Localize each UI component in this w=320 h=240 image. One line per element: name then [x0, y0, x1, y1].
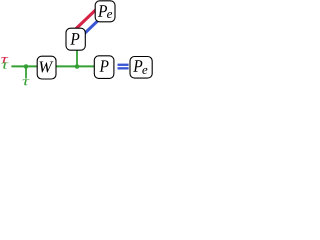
box W [37, 56, 56, 79]
wire: blue double line white core [117, 66, 130, 68]
wire: blue double line between bottom P and P_e [118, 64, 129, 70]
background [0, 0, 154, 105]
node: green junction dot right [75, 64, 80, 69]
label tau red (left, upper) [1, 57, 8, 63]
box P middle [66, 28, 85, 50]
wire: blue ribbon diagonal from P to top P_e [77, 13, 106, 41]
wire: green vertical riser to middle P box [76, 50, 78, 67]
box P bottom [94, 56, 114, 79]
wire: green horizontal main wire [11, 65, 95, 67]
node: green junction dot left [24, 64, 29, 69]
box P_e bottom right [130, 57, 152, 79]
wire: red ribbon diagonal from P to top P_e [71, 6, 100, 34]
box P_e top [95, 1, 115, 22]
label tau green (below left junction) [22, 79, 29, 85]
label tau green (left, lower) [2, 63, 9, 69]
wire: green vertical drop from left junction [25, 67, 27, 79]
